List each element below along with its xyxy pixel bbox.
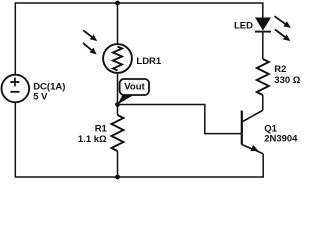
svg-text:5 V: 5 V	[33, 91, 48, 102]
wire LDR to Vout node	[117, 73, 119, 115]
svg-text:R2: R2	[274, 64, 286, 75]
LED light arrow 1	[275, 16, 291, 28]
svg-text:R1: R1	[95, 124, 108, 135]
wire R1 bottom to bottom rail	[117, 151, 119, 177]
junction node Vout	[115, 102, 120, 107]
svg-text:Vout: Vout	[124, 82, 145, 93]
LDR light arrow 2	[83, 43, 97, 55]
Vout callout	[118, 79, 150, 105]
wire top rail with left rail upper	[15, 3, 262, 75]
wire base (Vout node to Q1 base)	[118, 105, 242, 134]
LDR light arrow 1	[83, 30, 97, 41]
LED D1	[255, 18, 271, 32]
junction node top	[115, 1, 120, 6]
svg-text:2N3904: 2N3904	[264, 133, 298, 144]
resistor R1	[112, 115, 124, 151]
resistor R2	[257, 59, 269, 95]
LED light arrow 2	[275, 29, 291, 41]
svg-text:LED: LED	[234, 20, 253, 31]
wire middle branch top (node to LDR)	[117, 3, 119, 44]
wire LED to R2	[262, 32, 264, 60]
svg-text:LDR1: LDR1	[136, 56, 162, 67]
svg-text:1.1 kΩ: 1.1 kΩ	[78, 134, 107, 145]
svg-text:330 Ω: 330 Ω	[274, 75, 300, 86]
wire bottom rail with left rail lower	[15, 102, 263, 177]
transistor Q1 2N3904	[242, 110, 263, 154]
voltage source V1 DC(1A) 5V	[2, 75, 30, 103]
wire R2 to collector	[262, 95, 264, 110]
LDR1 photoresistor	[103, 44, 132, 73]
junction node bottom	[115, 175, 120, 180]
